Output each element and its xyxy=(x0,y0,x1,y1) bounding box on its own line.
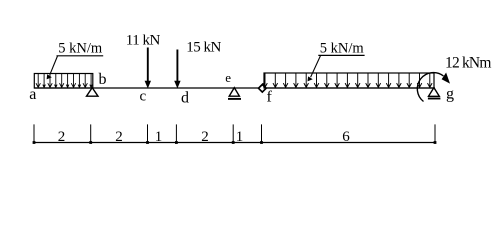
dimension dot c xyxy=(146,141,149,144)
svg-text:b: b xyxy=(99,71,107,88)
force arrow 15 kN at d xyxy=(176,50,178,83)
svg-text:11 kN: 11 kN xyxy=(126,33,161,49)
dimension tick e xyxy=(232,124,234,142)
dimension dot f xyxy=(260,141,263,144)
beam a-g xyxy=(34,87,435,89)
svg-text:5 kN/m: 5 kN/m xyxy=(58,41,103,57)
leader line left load xyxy=(50,56,58,75)
svg-text:f: f xyxy=(267,89,273,106)
svg-text:e: e xyxy=(225,70,231,85)
underline 5 kN/m right xyxy=(318,54,364,56)
roller support e triangle xyxy=(229,88,239,97)
dimension tick b xyxy=(90,124,92,142)
svg-text:15 kN: 15 kN xyxy=(186,40,221,56)
roller support g triangle xyxy=(429,88,440,97)
dimension dot a xyxy=(33,141,36,144)
svg-text:2: 2 xyxy=(58,129,66,145)
dimension tick f xyxy=(261,124,263,142)
leader arrowhead left load xyxy=(47,74,52,79)
dimension dot g xyxy=(434,141,437,144)
distributed load box f-g xyxy=(264,73,434,88)
svg-text:a: a xyxy=(29,86,36,103)
dimension dot b xyxy=(89,141,92,144)
svg-text:5 kN/m: 5 kN/m xyxy=(320,41,365,57)
leader line right load xyxy=(311,56,321,78)
moment arc at g xyxy=(417,73,443,102)
dimension line xyxy=(34,142,435,144)
dimension tick a xyxy=(33,124,35,142)
moment arrowhead xyxy=(442,73,450,84)
svg-text:2: 2 xyxy=(115,129,123,145)
roller support g base line xyxy=(428,98,441,100)
svg-text:g: g xyxy=(446,85,454,102)
svg-text:6: 6 xyxy=(342,129,350,145)
hinge f diamond xyxy=(259,85,267,93)
svg-text:12 kNm: 12 kNm xyxy=(445,55,491,72)
leader arrowhead right load xyxy=(308,76,313,81)
svg-text:c: c xyxy=(140,88,147,104)
load arrows f-g xyxy=(263,74,432,88)
underline 5 kN/m left xyxy=(57,55,104,57)
svg-text:2: 2 xyxy=(201,129,209,145)
load arrows a-b xyxy=(36,74,92,87)
dimension tick g xyxy=(434,124,436,142)
force arrow 11 kN at c xyxy=(147,48,149,83)
dimension dot e xyxy=(232,141,235,144)
dimension tick c xyxy=(147,124,149,142)
svg-text:1: 1 xyxy=(155,129,163,145)
dimension tick d xyxy=(175,124,177,142)
svg-text:d: d xyxy=(181,89,189,106)
pin support b xyxy=(87,88,99,97)
svg-text:1: 1 xyxy=(236,129,244,145)
roller support e base line xyxy=(228,98,241,100)
dimension dot d xyxy=(175,141,178,144)
distributed load box a-b xyxy=(34,74,93,89)
